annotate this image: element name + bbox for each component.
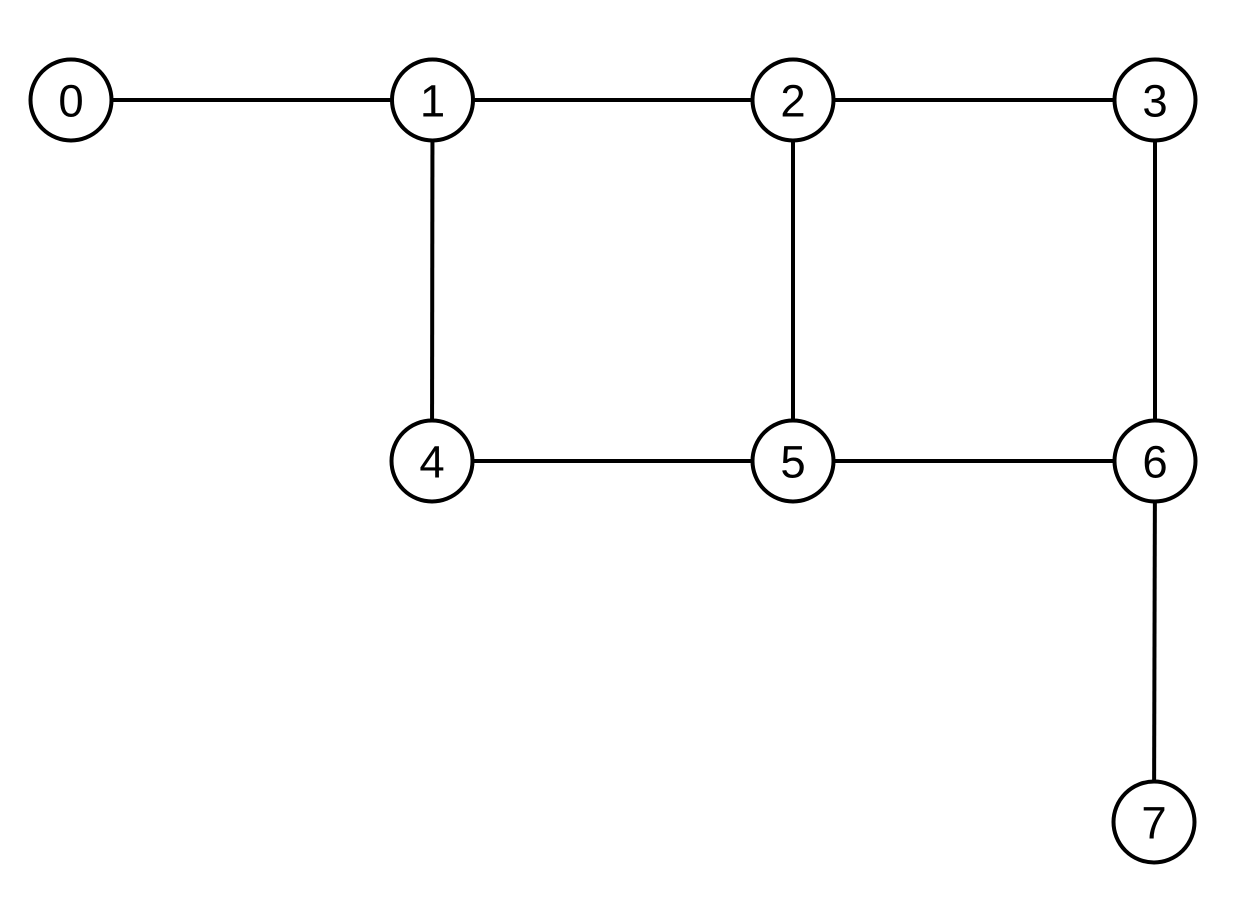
svg-text:6: 6 bbox=[1142, 437, 1167, 488]
svg-text:0: 0 bbox=[58, 76, 83, 127]
wire edge 2-5 bbox=[791, 100, 795, 461]
node 3 bbox=[1115, 60, 1196, 141]
node 2 bbox=[753, 60, 834, 141]
wire edge 3-6 bbox=[1153, 100, 1157, 461]
wire edge 4-5 bbox=[432, 459, 793, 463]
wire edge 6-7 bbox=[1154, 461, 1155, 822]
svg-text:5: 5 bbox=[780, 437, 805, 488]
node 6 bbox=[1115, 421, 1196, 502]
wire edge 1-2 bbox=[433, 98, 794, 102]
svg-text:1: 1 bbox=[420, 76, 445, 127]
node 0 bbox=[31, 60, 112, 141]
wire edge 0-1 bbox=[71, 98, 433, 102]
wire edge 2-3 bbox=[793, 98, 1155, 102]
svg-text:2: 2 bbox=[780, 76, 805, 127]
wire edge 5-6 bbox=[793, 459, 1155, 463]
svg-text:7: 7 bbox=[1141, 798, 1166, 849]
node 4 bbox=[392, 421, 473, 502]
node 5 bbox=[753, 421, 834, 502]
wire edge 1-4 bbox=[430, 100, 435, 461]
node 7 bbox=[1114, 782, 1195, 863]
svg-text:4: 4 bbox=[419, 437, 444, 488]
svg-text:3: 3 bbox=[1142, 76, 1167, 127]
node 1 bbox=[392, 60, 473, 141]
